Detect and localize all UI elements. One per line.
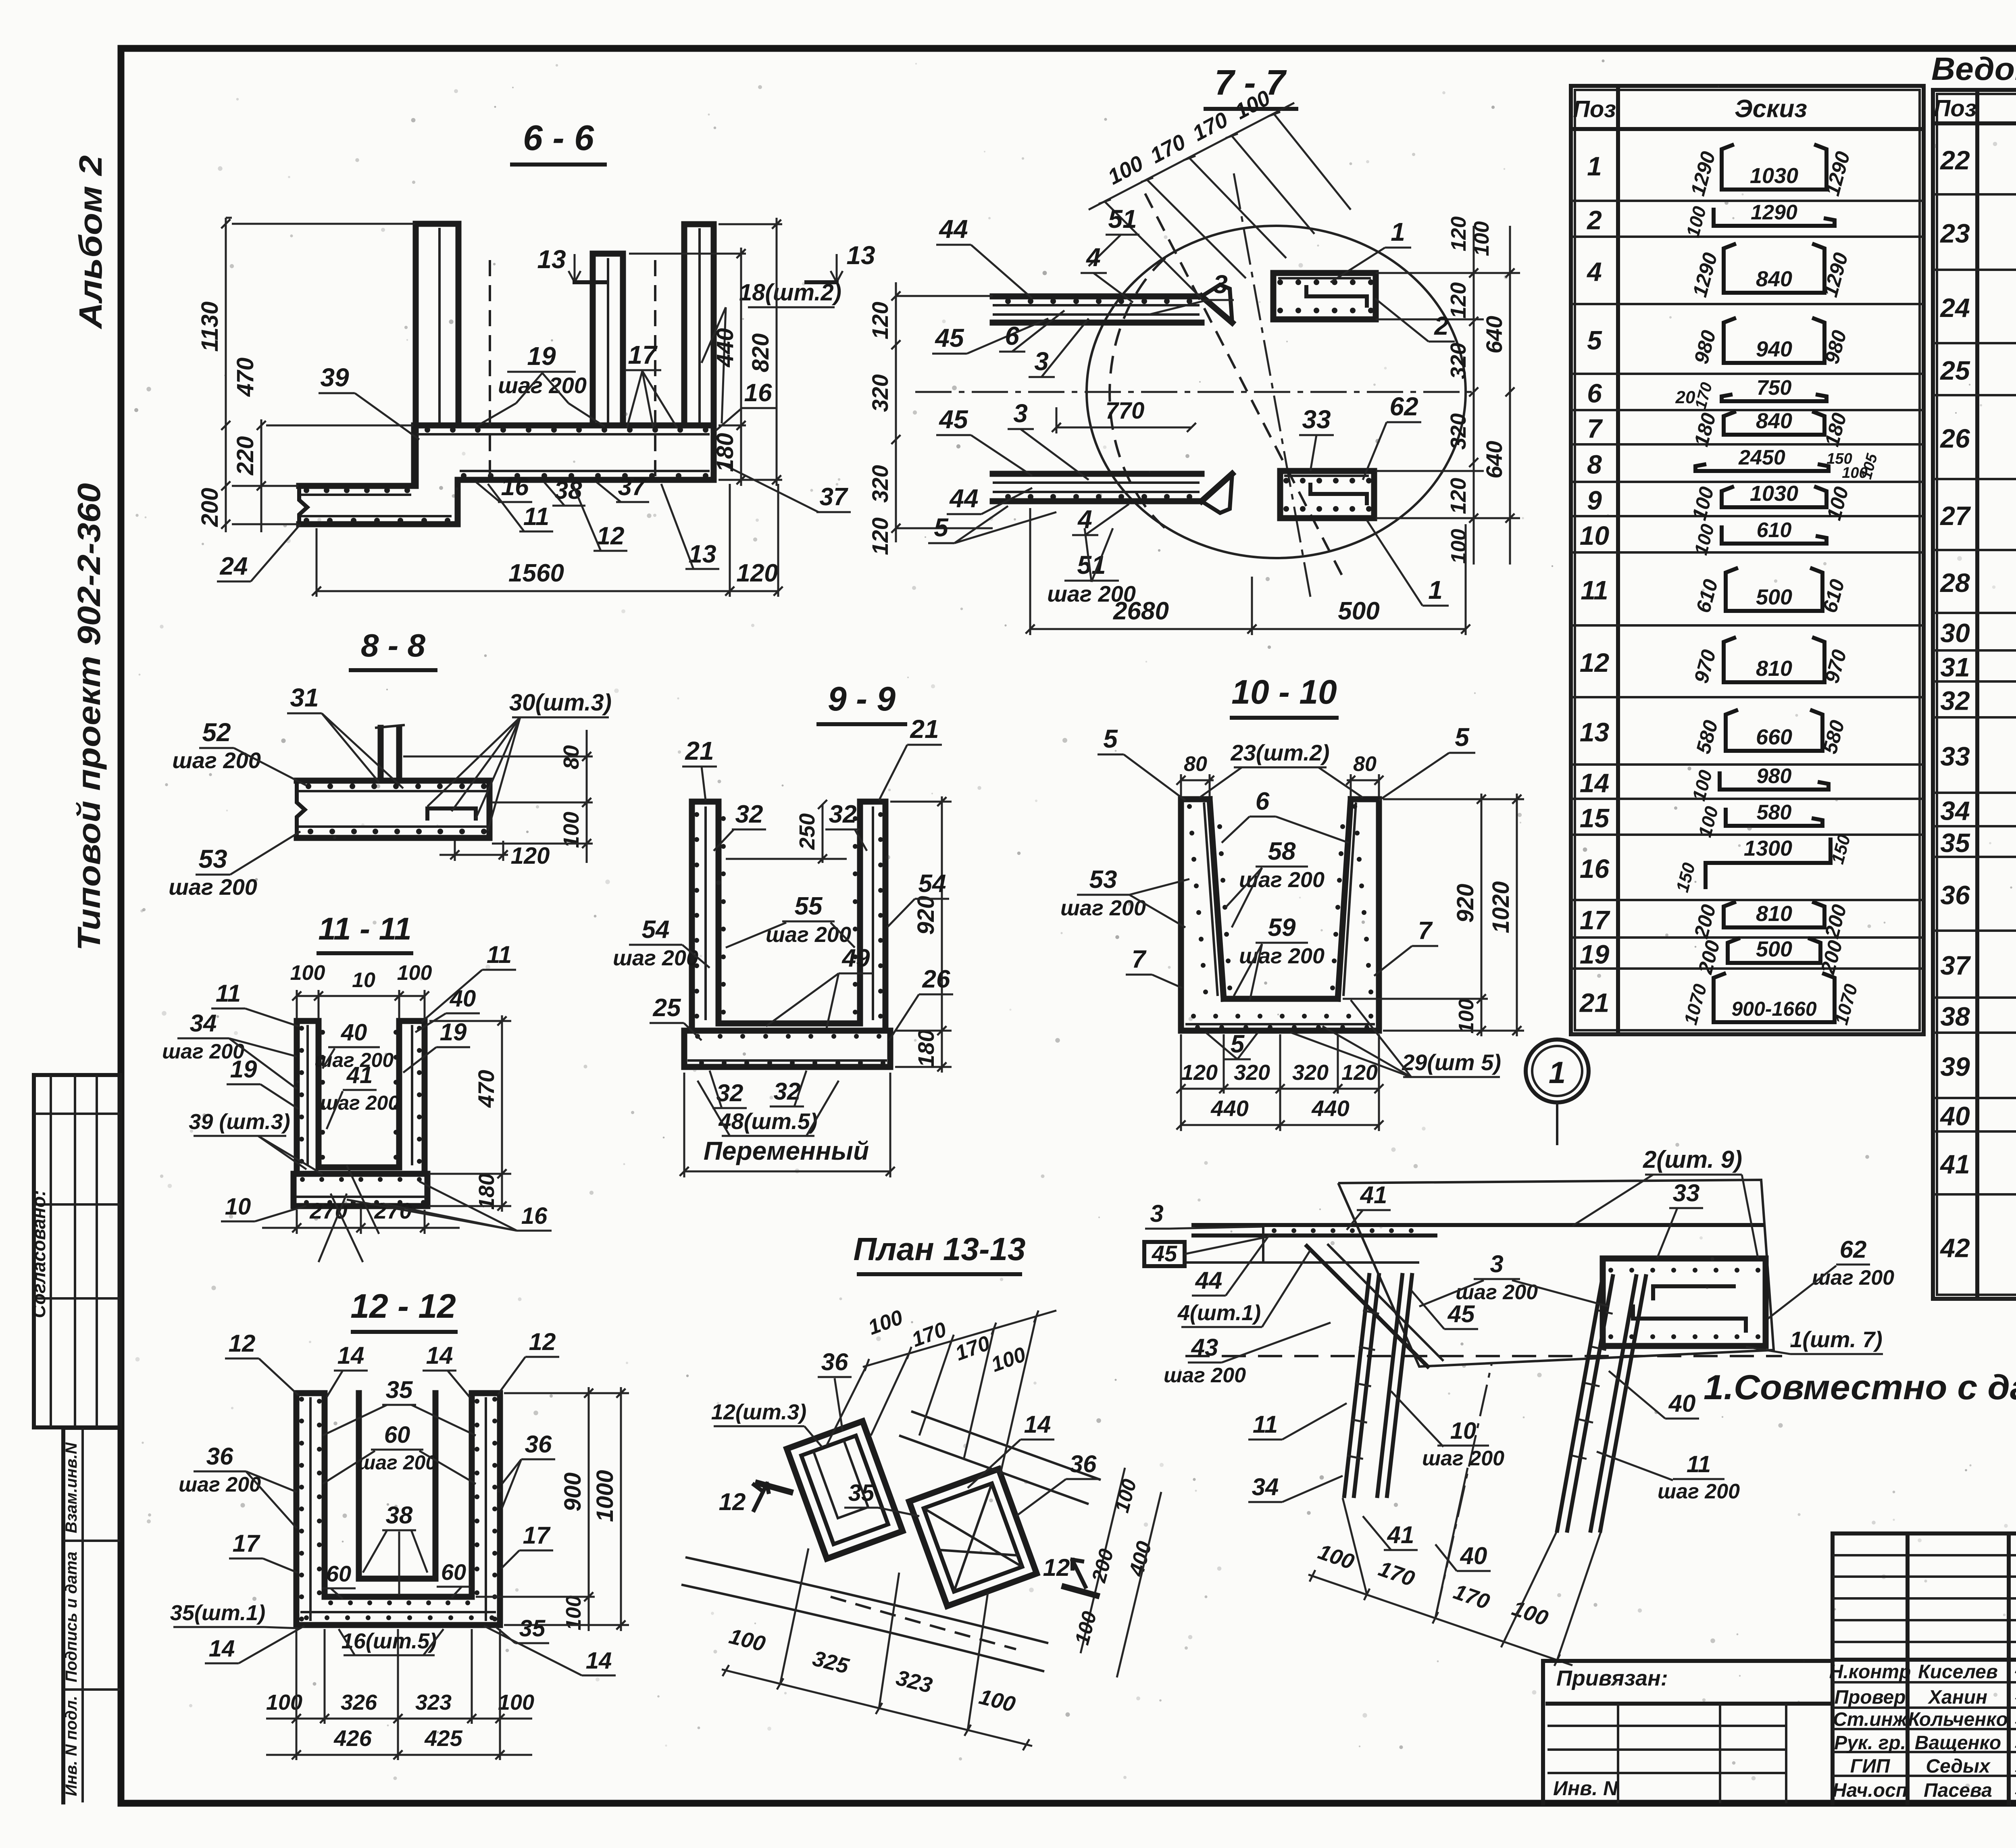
svg-text:16(шт.5): 16(шт.5) [342, 1629, 437, 1653]
svg-text:План 13-13: План 13-13 [854, 1231, 1026, 1267]
svg-text:12: 12 [229, 1330, 256, 1357]
svg-text:5: 5 [1231, 1030, 1245, 1058]
svg-text:37: 37 [820, 483, 848, 511]
svg-text:1(шт. 7): 1(шт. 7) [1790, 1327, 1883, 1352]
svg-text:7: 7 [1418, 917, 1433, 945]
svg-text:5: 5 [1587, 325, 1602, 355]
svg-text:220: 220 [232, 436, 258, 476]
svg-text:23: 23 [1939, 219, 1970, 248]
svg-text:37: 37 [1940, 950, 1971, 980]
svg-text:33: 33 [1302, 405, 1331, 434]
svg-text:22: 22 [1939, 145, 1970, 175]
svg-text:60: 60 [384, 1422, 410, 1448]
svg-text:6: 6 [1256, 788, 1270, 815]
svg-text:Кольченко: Кольченко [1908, 1709, 2008, 1730]
parts table group 1 (pos 1-21) [1571, 86, 1924, 1034]
svg-text:1: 1 [1391, 217, 1405, 246]
svg-text:6: 6 [1005, 321, 1019, 350]
svg-text:425: 425 [424, 1725, 462, 1751]
svg-text:Н.контр: Н.контр [1829, 1661, 1911, 1683]
svg-text:2(шт. 9): 2(шт. 9) [1643, 1146, 1742, 1173]
svg-text:19: 19 [230, 1056, 257, 1083]
svg-text:40: 40 [341, 1019, 367, 1046]
svg-text:840: 840 [1756, 409, 1792, 433]
svg-text:15: 15 [1580, 803, 1610, 833]
svg-text:Пасева: Пасева [1924, 1780, 1992, 1801]
svg-text:500: 500 [1338, 597, 1379, 625]
svg-text:770: 770 [1106, 398, 1145, 424]
svg-text:32: 32 [735, 800, 763, 828]
svg-text:45: 45 [1152, 1241, 1177, 1266]
svg-text:шаг 200: шаг 200 [498, 373, 587, 398]
svg-text:900: 900 [560, 1473, 586, 1512]
svg-text:шаг 200: шаг 200 [1164, 1364, 1246, 1387]
svg-text:980: 980 [1757, 765, 1792, 788]
svg-text:17: 17 [1580, 905, 1611, 935]
svg-text:426: 426 [333, 1725, 372, 1751]
svg-text:120: 120 [511, 843, 550, 869]
svg-text:19: 19 [527, 342, 556, 371]
svg-text:21: 21 [910, 715, 939, 744]
bottom stamp strip [63, 1426, 120, 1430]
svg-text:62: 62 [1840, 1236, 1867, 1263]
svg-text:750: 750 [1757, 376, 1792, 400]
svg-text:шаг 200: шаг 200 [1047, 581, 1136, 606]
Согласовано stamp block [34, 1075, 120, 1427]
svg-text:14: 14 [1024, 1411, 1051, 1438]
svg-text:10: 10 [352, 969, 375, 992]
svg-text:180: 180 [913, 1029, 939, 1067]
title block name table [1831, 1533, 1835, 1803]
svg-text:шаг 200: шаг 200 [320, 1092, 399, 1114]
svg-text:30(шт.3): 30(шт.3) [509, 690, 612, 716]
svg-text:8 - 8: 8 - 8 [361, 627, 426, 663]
svg-text:12: 12 [719, 1488, 746, 1515]
svg-text:14: 14 [586, 1648, 612, 1674]
svg-text:шаг 200: шаг 200 [1658, 1480, 1740, 1503]
svg-text:5: 5 [934, 513, 949, 542]
svg-text:60: 60 [326, 1561, 351, 1586]
svg-text:1: 1 [1428, 575, 1443, 604]
svg-text:320: 320 [867, 374, 893, 412]
svg-text:Седых: Седых [1926, 1756, 1991, 1777]
svg-text:11 - 11: 11 - 11 [318, 911, 411, 946]
svg-text:17: 17 [233, 1530, 260, 1557]
svg-text:37: 37 [618, 473, 647, 501]
svg-text:440: 440 [1311, 1096, 1349, 1121]
svg-text:40: 40 [1460, 1542, 1487, 1569]
parts table group 2 (pos 22-42) [1933, 90, 2016, 1299]
svg-text:Нач.осп: Нач.осп [1833, 1780, 1908, 1801]
svg-text:шаг 200: шаг 200 [179, 1473, 261, 1496]
svg-text:12: 12 [1043, 1554, 1070, 1581]
svg-text:12 - 12: 12 - 12 [350, 1287, 456, 1325]
svg-text:14: 14 [426, 1342, 453, 1369]
svg-text:12: 12 [597, 522, 625, 550]
svg-text:17: 17 [523, 1522, 551, 1549]
svg-text:53: 53 [1089, 866, 1117, 894]
svg-text:38: 38 [554, 477, 582, 504]
svg-text:100: 100 [498, 1690, 534, 1715]
svg-text:2: 2 [1434, 311, 1449, 340]
svg-text:250: 250 [795, 813, 819, 850]
svg-text:35(шт.1): 35(шт.1) [170, 1601, 265, 1625]
svg-text:36: 36 [525, 1431, 552, 1458]
svg-text:19: 19 [1580, 940, 1610, 969]
svg-text:320: 320 [1446, 343, 1470, 379]
svg-text:80: 80 [1184, 752, 1207, 776]
svg-text:35: 35 [519, 1615, 546, 1642]
svg-text:10: 10 [1580, 521, 1610, 550]
svg-text:16: 16 [1580, 854, 1610, 883]
svg-text:6: 6 [1587, 378, 1602, 408]
svg-text:39: 39 [320, 363, 349, 392]
svg-text:32: 32 [829, 800, 857, 828]
svg-text:21: 21 [1579, 988, 1609, 1018]
svg-text:120: 120 [867, 517, 893, 555]
svg-text:80: 80 [1353, 752, 1377, 776]
svg-text:120: 120 [1341, 1060, 1378, 1085]
svg-text:24: 24 [1939, 293, 1970, 323]
svg-text:11: 11 [487, 941, 512, 968]
svg-text:2: 2 [1586, 205, 1602, 235]
svg-text:9: 9 [1587, 485, 1602, 515]
svg-text:320: 320 [867, 465, 893, 502]
svg-text:100: 100 [1455, 999, 1478, 1034]
svg-text:24: 24 [220, 552, 248, 580]
svg-text:2450: 2450 [1738, 446, 1785, 469]
svg-text:470: 470 [232, 358, 258, 397]
svg-text:42: 42 [1939, 1233, 1970, 1263]
svg-text:120: 120 [1181, 1060, 1218, 1085]
svg-text:шаг 200: шаг 200 [1812, 1266, 1894, 1290]
svg-text:920: 920 [913, 896, 939, 935]
svg-text:Ведомость деталей: Ведомость деталей [1931, 51, 2016, 87]
svg-text:100: 100 [397, 961, 432, 985]
svg-text:10: 10 [1450, 1418, 1477, 1444]
svg-text:180: 180 [712, 433, 738, 472]
svg-text:29(шт 5): 29(шт 5) [1402, 1050, 1501, 1075]
svg-text:33: 33 [1673, 1179, 1700, 1206]
svg-text:Провер: Провер [1835, 1687, 1906, 1708]
svg-text:4(шт.1): 4(шт.1) [1177, 1301, 1261, 1325]
svg-text:1020: 1020 [1488, 881, 1514, 933]
svg-text:1030: 1030 [1750, 481, 1798, 506]
svg-text:120: 120 [1446, 282, 1470, 319]
svg-text:920: 920 [1452, 884, 1479, 923]
svg-text:1000: 1000 [592, 1470, 618, 1522]
svg-text:Поз: Поз [1934, 96, 1977, 122]
svg-text:41: 41 [1387, 1521, 1414, 1548]
svg-text:43: 43 [1191, 1334, 1218, 1361]
svg-text:55: 55 [795, 892, 823, 920]
svg-text:580: 580 [1757, 801, 1792, 824]
svg-text:36: 36 [1070, 1450, 1097, 1477]
svg-text:Ст.инж: Ст.инж [1833, 1709, 1908, 1730]
svg-text:10 - 10: 10 - 10 [1231, 673, 1337, 711]
svg-text:44: 44 [938, 215, 968, 244]
svg-text:120: 120 [736, 559, 778, 587]
svg-text:40: 40 [1939, 1101, 1970, 1131]
svg-text:18(шт.2): 18(шт.2) [739, 279, 841, 306]
svg-text:11: 11 [1581, 575, 1608, 605]
svg-text:59: 59 [1268, 914, 1296, 942]
svg-text:320: 320 [1446, 413, 1470, 450]
svg-text:3: 3 [1013, 399, 1028, 428]
svg-text:810: 810 [1756, 656, 1792, 681]
svg-text:Поз: Поз [1573, 96, 1616, 123]
svg-text:470: 470 [473, 1070, 499, 1108]
svg-text:900-1660: 900-1660 [1731, 998, 1816, 1020]
svg-text:34: 34 [1252, 1473, 1279, 1500]
svg-text:14: 14 [209, 1635, 235, 1662]
svg-text:11: 11 [1687, 1451, 1711, 1477]
svg-text:8: 8 [1587, 450, 1602, 479]
svg-text:36: 36 [206, 1443, 233, 1470]
svg-text:840: 840 [1756, 267, 1792, 291]
svg-text:26: 26 [1939, 423, 1970, 453]
svg-text:1030: 1030 [1750, 164, 1798, 188]
svg-text:940: 940 [1756, 337, 1792, 361]
svg-text:16: 16 [521, 1203, 548, 1229]
svg-text:34: 34 [1940, 796, 1970, 826]
svg-text:44: 44 [949, 484, 978, 513]
svg-text:41: 41 [1939, 1149, 1970, 1179]
svg-text:Типовой проект 902-2-360: Типовой проект 902-2-360 [71, 483, 107, 951]
svg-text:шаг 200: шаг 200 [1422, 1447, 1504, 1470]
svg-text:ГИП: ГИП [1850, 1756, 1891, 1777]
svg-text:58: 58 [1268, 838, 1296, 865]
svg-text:120: 120 [867, 302, 893, 339]
svg-text:810: 810 [1756, 902, 1792, 926]
svg-text:440: 440 [712, 328, 738, 368]
svg-text:16: 16 [501, 473, 529, 501]
svg-text:Киселев: Киселев [1918, 1661, 1998, 1683]
svg-text:326: 326 [341, 1690, 377, 1715]
svg-text:35: 35 [386, 1376, 413, 1403]
svg-text:13: 13 [537, 245, 566, 274]
svg-text:500: 500 [1756, 585, 1792, 609]
svg-text:Инв. N подл.: Инв. N подл. [62, 1696, 80, 1796]
svg-text:Переменный: Переменный [704, 1136, 869, 1165]
svg-text:14: 14 [1580, 768, 1609, 798]
svg-text:48(шт.5): 48(шт.5) [718, 1108, 817, 1134]
svg-text:40: 40 [1668, 1390, 1696, 1417]
svg-text:640: 640 [1481, 441, 1507, 478]
svg-text:51: 51 [1108, 204, 1137, 233]
svg-text:Рук. гр.: Рук. гр. [1834, 1732, 1906, 1754]
svg-text:323: 323 [415, 1690, 452, 1715]
svg-text:40: 40 [450, 985, 476, 1012]
svg-text:шаг 200: шаг 200 [169, 874, 257, 900]
svg-text:33: 33 [1940, 742, 1970, 771]
svg-text:10: 10 [225, 1194, 251, 1220]
svg-text:7: 7 [1132, 946, 1147, 973]
svg-text:36: 36 [821, 1348, 848, 1375]
svg-text:21: 21 [685, 736, 714, 765]
svg-text:28: 28 [1939, 568, 1970, 598]
svg-text:45: 45 [934, 323, 964, 352]
svg-text:4: 4 [1085, 243, 1101, 272]
svg-text:180: 180 [475, 1173, 499, 1210]
svg-text:36: 36 [1940, 880, 1970, 910]
svg-text:14: 14 [337, 1342, 364, 1369]
svg-text:шаг 200: шаг 200 [172, 748, 261, 773]
svg-text:32: 32 [1940, 686, 1970, 716]
svg-text:26: 26 [922, 965, 950, 993]
svg-text:25: 25 [1939, 356, 1970, 385]
svg-text:13: 13 [846, 241, 875, 270]
svg-text:Инв. N: Инв. N [1553, 1777, 1618, 1800]
svg-text:610: 610 [1757, 519, 1792, 542]
svg-text:Эскиз: Эскиз [1735, 95, 1807, 123]
svg-text:3: 3 [1213, 270, 1228, 299]
svg-text:62: 62 [1389, 392, 1418, 421]
isometric reinforcement drawing [1338, 1180, 1774, 1367]
svg-text:60: 60 [441, 1559, 466, 1585]
svg-text:6 - 6: 6 - 6 [523, 118, 594, 158]
svg-text:3: 3 [1150, 1200, 1163, 1227]
svg-text:100: 100 [1470, 221, 1493, 256]
svg-text:12: 12 [529, 1328, 556, 1355]
svg-text:1.Совместно с данным листом см: 1.Совместно с данным листом смотреть лис… [1704, 1368, 2016, 1407]
svg-text:320: 320 [1234, 1060, 1270, 1085]
svg-text:38: 38 [1940, 1002, 1970, 1031]
svg-text:45: 45 [938, 405, 968, 434]
svg-text:120: 120 [1447, 217, 1470, 252]
svg-text:440: 440 [1210, 1096, 1248, 1121]
svg-text:23(шт.2): 23(шт.2) [1230, 740, 1329, 765]
svg-text:Ханин: Ханин [1927, 1687, 1987, 1708]
svg-text:41: 41 [346, 1062, 373, 1088]
svg-text:31: 31 [290, 683, 319, 712]
svg-text:11: 11 [523, 503, 549, 531]
svg-text:52: 52 [202, 718, 231, 747]
svg-text:Ващенко: Ващенко [1915, 1732, 2001, 1754]
svg-text:Взам.инв.N: Взам.инв.N [62, 1442, 80, 1533]
svg-text:13: 13 [1580, 717, 1609, 747]
svg-text:44: 44 [1195, 1267, 1223, 1294]
svg-text:53: 53 [198, 844, 227, 873]
svg-text:1: 1 [1587, 151, 1602, 181]
svg-text:500: 500 [1756, 937, 1792, 961]
svg-text:11: 11 [216, 980, 241, 1007]
svg-text:11: 11 [1253, 1411, 1278, 1438]
svg-text:3: 3 [1490, 1250, 1503, 1277]
svg-text:820: 820 [748, 333, 774, 373]
svg-text:7: 7 [1587, 414, 1603, 444]
svg-text:320: 320 [1292, 1060, 1329, 1085]
svg-text:54: 54 [918, 870, 946, 898]
svg-text:Согласовано:: Согласовано: [28, 1190, 49, 1318]
svg-text:19: 19 [440, 1019, 467, 1046]
svg-text:38: 38 [386, 1502, 413, 1529]
svg-text:120: 120 [1446, 478, 1470, 514]
svg-text:12(шт.3): 12(шт.3) [711, 1400, 806, 1424]
svg-text:4: 4 [1586, 257, 1602, 287]
svg-text:1300: 1300 [1744, 836, 1792, 860]
svg-text:16: 16 [744, 379, 772, 407]
svg-text:54: 54 [642, 916, 670, 944]
svg-text:5: 5 [1455, 723, 1470, 752]
svg-text:35: 35 [1940, 828, 1970, 858]
svg-text:640: 640 [1481, 316, 1507, 353]
svg-text:100: 100 [290, 961, 325, 985]
svg-text:12: 12 [1580, 648, 1610, 677]
svg-text:шаг 200: шаг 200 [613, 946, 698, 970]
svg-text:100: 100 [1447, 529, 1470, 564]
svg-text:49: 49 [841, 944, 870, 972]
scan speckle noise [942, 319, 946, 323]
svg-text:41: 41 [1360, 1181, 1387, 1208]
svg-text:17: 17 [628, 340, 658, 369]
svg-text:39 (шт.3): 39 (шт.3) [189, 1110, 290, 1134]
svg-text:31: 31 [1940, 652, 1970, 682]
svg-text:1130: 1130 [197, 302, 223, 352]
svg-text:35: 35 [848, 1480, 875, 1506]
svg-text:39: 39 [1940, 1052, 1970, 1081]
svg-text:660: 660 [1756, 725, 1792, 749]
svg-text:Привязан:: Привязан: [1556, 1666, 1668, 1690]
svg-text:5: 5 [1103, 724, 1118, 753]
svg-text:25: 25 [653, 994, 681, 1022]
svg-text:Подпись и дата: Подпись и дата [62, 1552, 80, 1682]
svg-text:шаг 200: шаг 200 [1060, 896, 1146, 920]
svg-text:45: 45 [1447, 1300, 1475, 1327]
svg-text:Альбом 2: Альбом 2 [73, 155, 108, 329]
node marker circle 1 [1526, 1040, 1589, 1102]
svg-text:200: 200 [197, 488, 223, 527]
svg-text:1290: 1290 [1751, 201, 1797, 224]
svg-text:34: 34 [190, 1010, 217, 1037]
svg-text:1: 1 [1549, 1056, 1566, 1090]
svg-text:9 - 9: 9 - 9 [828, 680, 896, 718]
svg-text:30: 30 [1940, 618, 1970, 648]
Привязан box [1543, 1659, 1833, 1663]
svg-text:27: 27 [1939, 501, 1971, 531]
svg-text:1560: 1560 [508, 559, 564, 587]
